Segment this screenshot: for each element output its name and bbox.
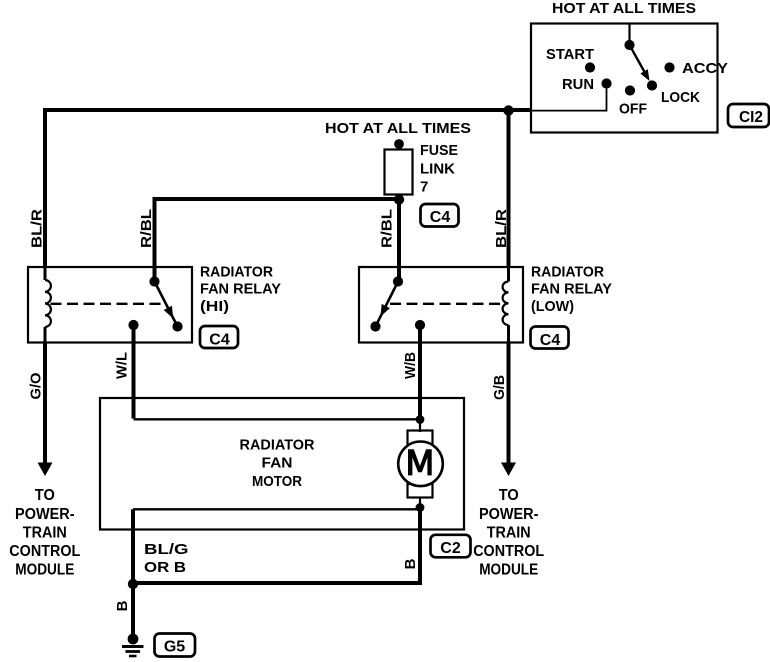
wire fuse to right relay R/BL — [397, 194, 401, 282]
svg-text:RADIATOR: RADIATOR — [531, 264, 604, 281]
svg-text:MOTOR: MOTOR — [252, 473, 302, 490]
svg-text:7: 7 — [420, 179, 428, 196]
svg-text:C4: C4 — [430, 209, 451, 226]
node ground junction — [128, 579, 138, 589]
svg-text:C4: C4 — [209, 332, 230, 349]
node LOW output — [415, 320, 425, 330]
node HI pivot — [149, 276, 159, 286]
wire W/L — [132, 325, 136, 419]
svg-text:BL/R: BL/R — [29, 209, 46, 248]
node ACCY — [664, 62, 674, 72]
wire fuse to left relay R/BL — [155, 199, 400, 282]
svg-text:FAN: FAN — [262, 455, 293, 472]
svg-text:TRAIN: TRAIN — [487, 524, 531, 541]
svg-text:FAN RELAY: FAN RELAY — [531, 281, 612, 298]
svg-text:(LOW): (LOW) — [531, 298, 574, 315]
relay box (LOW) — [359, 267, 523, 343]
svg-text:BL/G: BL/G — [144, 541, 189, 558]
svg-text:BL/R: BL/R — [493, 209, 510, 248]
svg-text:TO: TO — [499, 487, 519, 504]
node fuse top — [394, 139, 404, 149]
connector C4 (HI relay) — [200, 326, 238, 348]
svg-text:HOT AT ALL TIMES: HOT AT ALL TIMES — [325, 120, 471, 137]
node motor top — [416, 415, 425, 424]
motor M1 — [419, 420, 421, 433]
fuse link 7 — [385, 150, 413, 195]
wire ignition feed stub — [628, 24, 630, 46]
node HI arm end — [172, 321, 182, 331]
node LOCK — [647, 80, 657, 90]
wire G/O — [43, 342, 47, 464]
coil (LOW relay) — [507, 267, 510, 282]
coil (HI relay) — [44, 267, 47, 280]
switch arm (HI relay) — [155, 282, 178, 327]
svg-text:MODULE: MODULE — [15, 561, 74, 578]
svg-text:R/BL: R/BL — [378, 209, 395, 248]
svg-text:OFF: OFF — [619, 101, 647, 118]
node LOW pivot — [393, 276, 403, 286]
wire RUN to junction — [530, 84, 607, 111]
wire motor bottom link — [133, 508, 420, 510]
ignition switch arm — [630, 45, 647, 76]
svg-text:R/BL: R/BL — [138, 209, 155, 248]
node motor bottom — [416, 503, 425, 512]
ignition switch box C12 — [531, 24, 718, 133]
svg-text:TO: TO — [35, 487, 55, 504]
connector C2 — [431, 535, 471, 558]
svg-text:CONTROL: CONTROL — [473, 543, 544, 560]
radiator fan motor box — [100, 398, 464, 530]
wire B to ground — [131, 584, 135, 637]
svg-text:FUSE: FUSE — [420, 142, 458, 159]
ground G5 — [128, 634, 139, 645]
svg-text:FAN RELAY: FAN RELAY — [200, 281, 281, 298]
wire main feed BL/R — [45, 110, 530, 268]
switch arm (LOW relay) — [376, 282, 399, 327]
svg-text:G/B: G/B — [491, 375, 508, 400]
svg-text:C4: C4 — [540, 332, 561, 349]
wire motor top link — [134, 418, 421, 420]
node START — [585, 62, 595, 72]
svg-text:W/B: W/B — [402, 352, 419, 379]
wire BL/R right drop — [507, 110, 511, 268]
svg-text:G5: G5 — [164, 639, 185, 656]
dashed link (LOW relay) — [390, 303, 505, 305]
dashed link (HI relay) — [51, 303, 165, 305]
svg-text:CONTROL: CONTROL — [9, 543, 80, 560]
svg-text:START: START — [546, 46, 594, 63]
svg-text:HOT AT ALL TIMES: HOT AT ALL TIMES — [552, 0, 696, 17]
svg-text:G/O: G/O — [28, 372, 45, 399]
svg-text:CI2: CI2 — [739, 109, 763, 126]
relay box (HI) — [28, 267, 192, 343]
svg-text:POWER-: POWER- — [479, 506, 539, 523]
svg-text:RUN: RUN — [562, 76, 594, 93]
svg-text:B: B — [114, 600, 131, 611]
node OFF — [625, 85, 635, 95]
connector C4 (fuse) — [421, 204, 459, 227]
svg-text:ACCY: ACCY — [682, 60, 728, 77]
wire BL/G OR B — [131, 509, 135, 583]
node fuse bottom — [394, 194, 404, 204]
svg-text:MODULE: MODULE — [479, 561, 538, 578]
connector C4 (LOW relay) — [531, 327, 569, 349]
wire B from motor — [133, 508, 420, 584]
node main junction — [503, 105, 513, 115]
svg-text:POWER-: POWER- — [15, 506, 75, 523]
svg-text:W/L: W/L — [114, 352, 131, 379]
svg-text:OR B: OR B — [144, 559, 186, 576]
svg-text:C2: C2 — [440, 540, 461, 557]
svg-text:RADIATOR: RADIATOR — [200, 264, 273, 281]
wire G/B — [507, 342, 511, 464]
svg-text:RADIATOR: RADIATOR — [240, 437, 315, 454]
svg-text:TRAIN: TRAIN — [23, 524, 67, 541]
svg-text:LOCK: LOCK — [661, 89, 700, 106]
svg-text:LINK: LINK — [420, 161, 455, 178]
node RUN — [601, 78, 611, 88]
wire W/B — [418, 325, 422, 420]
node HI output — [128, 320, 138, 330]
connector G5 — [155, 634, 196, 657]
node LOW arm end — [370, 321, 380, 331]
connector C12 — [728, 104, 769, 127]
svg-text:(HI): (HI) — [200, 298, 229, 315]
svg-text:B: B — [402, 558, 419, 569]
node ignition pivot — [624, 40, 634, 50]
